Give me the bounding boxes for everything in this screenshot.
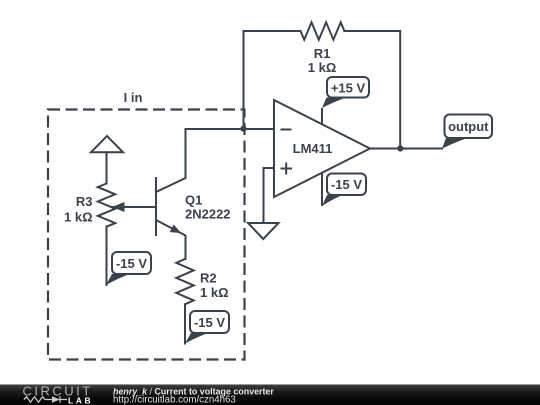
wire non-inverting input to ground <box>264 168 275 223</box>
resistor R1 <box>301 22 345 39</box>
svg-text:R3: R3 <box>76 194 93 209</box>
node Iin terminal triangle <box>91 136 123 152</box>
svg-text:1 kΩ: 1 kΩ <box>308 60 337 75</box>
wire op-amp output to flag <box>370 148 442 150</box>
power flag +15 V at op-amp <box>322 77 369 108</box>
op-amp U1 LM411 <box>274 100 370 197</box>
ground <box>248 223 279 239</box>
wire R1 right to output junction <box>344 31 400 149</box>
svg-text:Q1: Q1 <box>185 193 202 208</box>
wire collector to inverting input <box>156 129 274 192</box>
net flag output <box>442 115 492 149</box>
wire R2 to -15V flag <box>184 304 186 343</box>
wire R3 to -15V flag <box>106 227 108 286</box>
wire feedback left vertical <box>244 31 301 129</box>
svg-text:R2: R2 <box>200 271 217 286</box>
wire emitter <box>156 220 186 259</box>
resistor R3 <box>98 184 115 227</box>
svg-text:2N2222: 2N2222 <box>185 207 231 222</box>
svg-text:R1: R1 <box>314 46 331 61</box>
power flag -15 V at R3 <box>106 252 151 285</box>
footer bar <box>0 384 540 385</box>
svg-text:LM411: LM411 <box>293 141 333 156</box>
junction node at inverting input <box>240 126 246 132</box>
transistor Q1 base bar <box>155 178 157 235</box>
svg-text:-15 V: -15 V <box>194 315 225 330</box>
svg-text:-15 V: -15 V <box>331 177 362 192</box>
wire op-amp V- pin <box>321 173 323 206</box>
svg-text:+15 V: +15 V <box>331 80 366 95</box>
power flag -15 V at op-amp <box>322 174 366 207</box>
svg-text:1 kΩ: 1 kΩ <box>200 285 229 300</box>
dashed box I in <box>48 110 245 360</box>
wire base to R3 wiper <box>112 206 156 208</box>
resistor R2 <box>176 259 193 304</box>
transistor Q1 emitter arrowhead <box>170 225 181 234</box>
svg-text:1 kΩ: 1 kΩ <box>64 209 93 224</box>
power flag -15 V at R2 <box>185 311 229 344</box>
junction node at output <box>397 145 403 151</box>
svg-text:http://circuitlab.com/czn4h63: http://circuitlab.com/czn4h63 <box>113 394 236 405</box>
CircuitLab logo zigzag and diode <box>24 396 67 402</box>
svg-text:output: output <box>448 119 489 134</box>
svg-text:I in: I in <box>124 90 143 105</box>
wire terminal to R3 <box>106 152 108 183</box>
svg-text:LAB: LAB <box>68 395 93 405</box>
wire op-amp V+ pin <box>321 108 323 124</box>
svg-text:-15 V: -15 V <box>116 256 147 271</box>
potentiometer wiper arrowhead R3 <box>112 202 125 212</box>
